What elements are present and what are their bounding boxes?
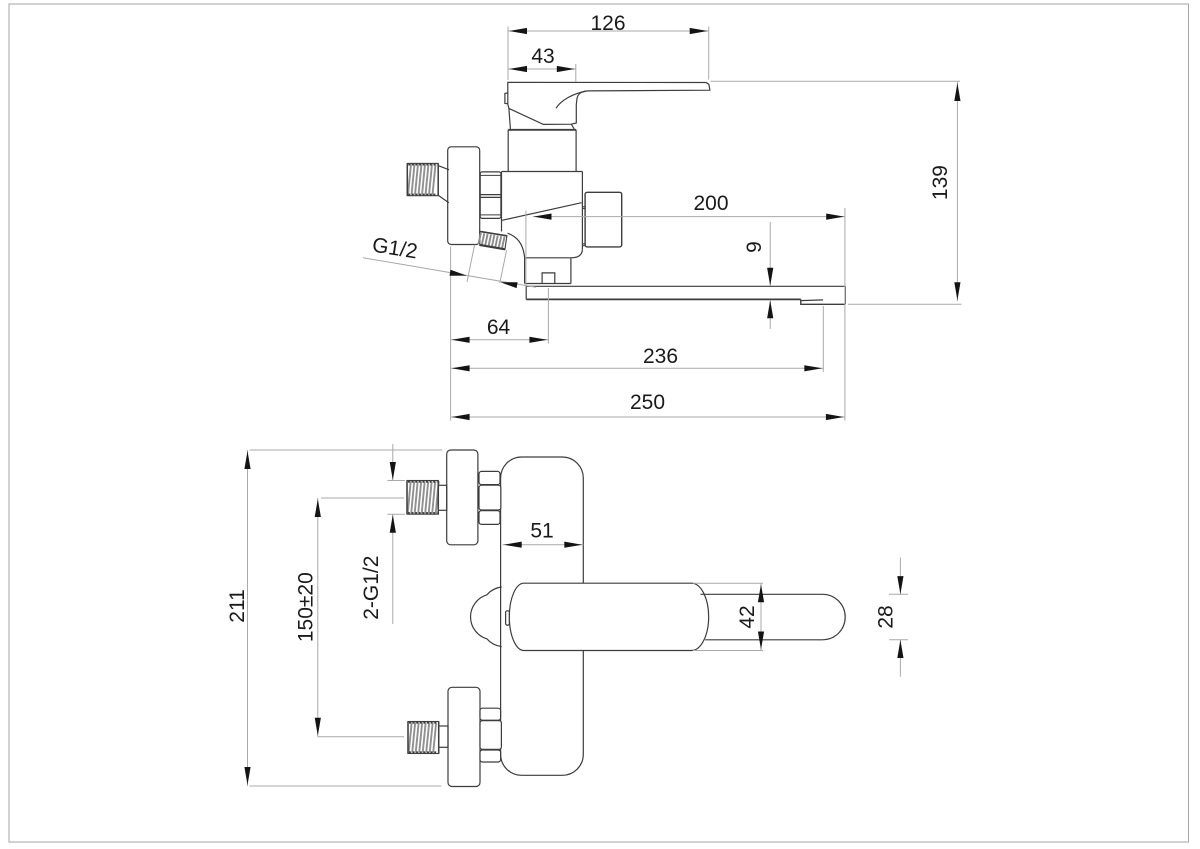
spout tip inner line	[801, 299, 823, 302]
svg-text:139: 139	[929, 165, 952, 200]
spout neck block	[525, 258, 571, 284]
eccentric union side view	[438, 166, 449, 203]
lower wall thread front view	[408, 722, 439, 754]
dim 150 extension lines	[321, 497, 404, 499]
body bottom face line	[525, 257, 571, 259]
body right fillet to neck	[571, 250, 582, 258]
lever arm front view	[701, 594, 846, 640]
wall flange escutcheon side view	[448, 147, 480, 245]
dim 200 extension line	[525, 211, 527, 286]
cartridge bulge front view	[471, 587, 502, 647]
dim 250 line	[451, 416, 845, 418]
svg-text:42: 42	[736, 605, 759, 628]
dim 236 line	[451, 367, 824, 369]
dim 211 extension lines	[250, 449, 443, 451]
upper attachment nut front view	[479, 471, 500, 484]
svg-text:9: 9	[743, 241, 766, 253]
shower outlet thread G1/2 side view	[480, 231, 507, 249]
dim 51 line	[503, 544, 584, 546]
svg-text:126: 126	[590, 12, 625, 35]
wall supply thread side view	[407, 163, 438, 195]
cartridge housing	[508, 129, 576, 131]
dim 28 lines	[899, 558, 901, 595]
attachment nut side view	[480, 172, 501, 219]
upper wall flange front view	[447, 450, 478, 545]
body left fillet from shower thread	[508, 233, 525, 258]
neck bottom notch	[542, 273, 555, 284]
svg-text:250: 250	[630, 391, 665, 414]
boss connecting tab upper	[583, 207, 585, 209]
handle block front view	[509, 583, 708, 650]
bottom extension lines	[450, 247, 452, 421]
lower attachment nut front view	[480, 708, 501, 720]
handle left indicator tab	[505, 93, 508, 104]
lower eccentric connector front view	[439, 726, 448, 747]
dim 211 line	[247, 450, 249, 786]
body slanted face line	[502, 203, 582, 221]
dim 139 line	[956, 82, 958, 301]
upper eccentric connector front view	[438, 485, 446, 510]
dim 43 line	[508, 68, 576, 70]
spout aerator tip block	[801, 299, 846, 304]
svg-text:150±20: 150±20	[295, 572, 318, 642]
spout connection boss side view	[585, 192, 622, 247]
boss connecting tab lower	[583, 244, 585, 246]
spout tube	[526, 286, 845, 304]
lever handle neck curve	[556, 91, 586, 108]
svg-text:51: 51	[530, 519, 553, 542]
lever handle side view	[508, 82, 710, 124]
dim 2-G1/2 lines	[392, 444, 394, 480]
svg-text:236: 236	[643, 345, 678, 368]
upper wall thread front view	[407, 481, 438, 515]
label G1/2 leader line	[363, 258, 536, 288]
dim 64 line	[451, 339, 549, 341]
dim 42 line	[760, 583, 762, 650]
dim 9 lines	[769, 222, 771, 286]
dim 28 extension lines	[889, 593, 908, 595]
dim 126 extension lines	[507, 27, 509, 81]
dim 42 extension lines	[693, 582, 763, 584]
handle dome left edge	[509, 108, 511, 128]
dim 150 line	[317, 498, 319, 737]
handle dome right edge	[571, 124, 574, 129]
dim 200 line	[533, 216, 845, 218]
svg-text:64: 64	[487, 316, 511, 339]
svg-text:200: 200	[693, 192, 728, 215]
mixer body front view	[501, 457, 584, 775]
dim 126 line	[508, 30, 709, 32]
mixer body block	[502, 172, 583, 250]
svg-text:211: 211	[226, 589, 249, 622]
shower thread extension lines	[467, 245, 475, 282]
svg-text:2-G1/2: 2-G1/2	[360, 556, 383, 620]
dim 139 extension lines	[711, 80, 961, 82]
svg-text:43: 43	[531, 45, 554, 68]
handle indicator tab front view	[506, 611, 510, 625]
svg-text:28: 28	[875, 605, 898, 628]
lower wall flange front view	[448, 687, 480, 786]
